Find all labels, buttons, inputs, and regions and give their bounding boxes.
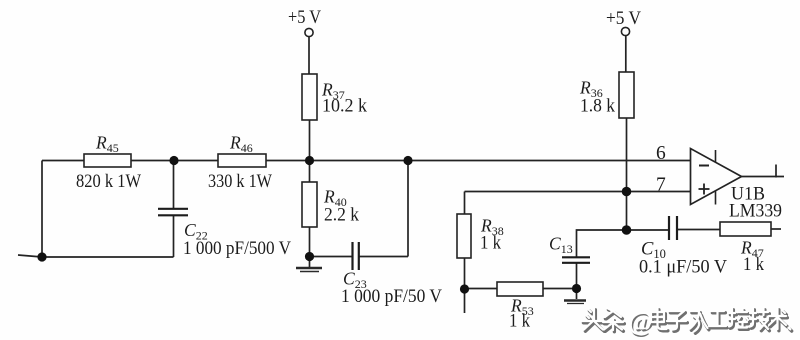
svg-text:330 k 1W: 330 k 1W <box>208 171 272 192</box>
svg-text:7: 7 <box>656 175 666 196</box>
svg-text:6: 6 <box>656 143 666 164</box>
svg-text:0.1 μF/50 V: 0.1 μF/50 V <box>639 257 727 278</box>
svg-text:LM339: LM339 <box>729 201 782 222</box>
svg-text:@: @ <box>628 306 653 336</box>
svg-text:+5 V: +5 V <box>606 8 641 29</box>
svg-text:+5 V: +5 V <box>288 7 321 28</box>
svg-text:820 k 1W: 820 k 1W <box>76 171 141 192</box>
